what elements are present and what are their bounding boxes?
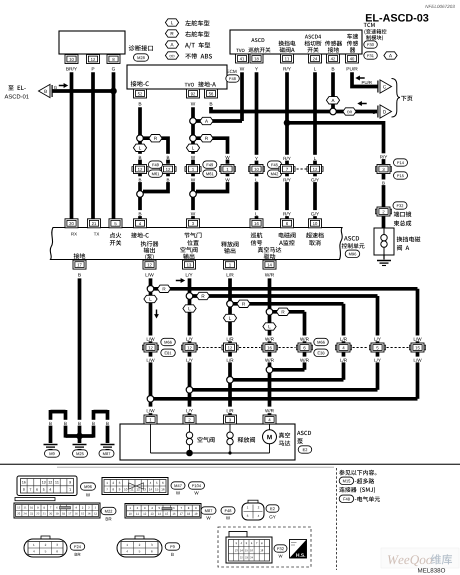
page link triangle C bbox=[378, 80, 392, 93]
split junction L/W bbox=[147, 286, 154, 293]
wire label L bbox=[314, 67, 316, 70]
wire label W/R below inline connector bbox=[265, 357, 275, 363]
junction of ground wires bbox=[330, 108, 337, 115]
wire label L/Y above inline connector bbox=[185, 336, 195, 342]
split junction bbox=[190, 135, 197, 142]
RHD inline connector 6 (M66/E38) bbox=[296, 343, 312, 352]
wire label R/Y bbox=[283, 67, 291, 71]
connector ref M61 bbox=[203, 170, 217, 177]
variant lens R bbox=[196, 292, 209, 299]
junction R/Y branch bbox=[284, 120, 291, 127]
wire R/Y from TCM pin 11 to ASCD unit pin 6 bbox=[285, 72, 289, 219]
merge junction bbox=[190, 191, 197, 198]
wire into shift solenoid A bbox=[382, 216, 386, 229]
body ground M25 bbox=[73, 445, 87, 450]
body ground M9 bbox=[44, 445, 58, 450]
connector ref F104 bbox=[189, 482, 205, 489]
wire stubs to pump pins bbox=[149, 413, 153, 416]
pin 56 bbox=[205, 89, 218, 98]
wire label R/Y bbox=[282, 155, 292, 161]
wire label B bbox=[63, 420, 67, 426]
watermark WeeQoo bbox=[381, 548, 459, 568]
connector ref M96 bbox=[345, 250, 360, 257]
wire label B bbox=[78, 273, 81, 276]
wire L/Y RHD branch bus bbox=[190, 294, 378, 298]
connector ref E81 bbox=[161, 349, 176, 356]
wire L/GY from TCM pin 24 to ASCD unit pin 10 bbox=[313, 72, 317, 219]
variant lens R bbox=[149, 135, 162, 142]
wire label L bbox=[254, 176, 258, 182]
connector ref M47 bbox=[171, 482, 185, 489]
connector ref M96 bbox=[81, 483, 96, 490]
wire label B bbox=[77, 420, 81, 426]
variant lens A on TCM sensor ground bbox=[326, 97, 339, 104]
ECM label bbox=[227, 70, 236, 73]
wire label L above pin 16 bbox=[254, 210, 258, 216]
connector ref F32 bbox=[274, 545, 287, 552]
data link connector box M28 bbox=[59, 31, 125, 54]
connector ref F31 bbox=[364, 52, 378, 59]
merge junction L/Y bbox=[186, 387, 193, 394]
wire label B bbox=[138, 176, 142, 182]
wire label B bbox=[332, 67, 335, 70]
merge junction L/R bbox=[227, 377, 234, 384]
variant lens L bbox=[263, 323, 276, 330]
connector ref F48 bbox=[226, 75, 240, 82]
pin 8 bbox=[107, 55, 120, 64]
ground branch wires bbox=[66, 434, 80, 438]
release valve coil 释放阀 bbox=[229, 424, 231, 432]
wire L/R RHD branch bus bbox=[230, 302, 344, 306]
body ground M87 bbox=[101, 445, 115, 450]
plate number MEL838O bbox=[418, 568, 445, 572]
wire label Y bbox=[254, 155, 258, 161]
wire L/R main (LHD path) bbox=[228, 278, 232, 406]
wire label B bbox=[48, 420, 52, 426]
wire label L/R above RHD inline connector bbox=[339, 336, 349, 342]
TCM pin 42 bbox=[327, 54, 340, 63]
wire label W/R below RHD inline connector bbox=[300, 357, 310, 363]
split junction L/R bbox=[227, 301, 234, 308]
wire L/W main (LHD path) bbox=[149, 278, 153, 406]
ASCD pin 12 bbox=[143, 260, 156, 269]
solenoid coil bbox=[383, 228, 385, 235]
pin 92 bbox=[187, 89, 200, 98]
ASCD pin 17 bbox=[73, 260, 86, 269]
connector face F9 oval 6-pin bbox=[135, 536, 144, 540]
variant lens R bbox=[276, 308, 289, 315]
wire label BR/Y bbox=[66, 67, 77, 71]
inline connector 12 bbox=[307, 165, 323, 174]
wire label L/W above RHD inline connector bbox=[413, 336, 423, 342]
connector ref F45 bbox=[268, 161, 282, 168]
wire label G/Y bbox=[310, 176, 320, 182]
merge junction W/R bbox=[266, 367, 273, 374]
wire label W branch bbox=[225, 154, 229, 160]
wire Y/L from TCM pin 18 to ASCD unit pin 16 bbox=[255, 72, 259, 219]
inline connector 1 (F49) bbox=[185, 165, 201, 174]
connector face F32 (SMJ) bbox=[229, 532, 247, 538]
inline connector 7 bbox=[279, 165, 295, 174]
split junction W/R bbox=[266, 309, 273, 316]
wire label B bbox=[91, 420, 95, 426]
wire L/Y main (LHD path) bbox=[188, 278, 192, 406]
junction of ground wires bbox=[76, 433, 83, 440]
shift solenoid A box bbox=[374, 228, 394, 255]
ASCD pin 4 bbox=[134, 219, 147, 228]
connector ref F48 bbox=[221, 507, 235, 514]
wire label R/Y bbox=[282, 176, 292, 182]
wire B from TCM pin 42 bbox=[331, 72, 335, 111]
wire label B below connector 3 bbox=[381, 180, 385, 186]
ASCD pump label bbox=[297, 431, 311, 435]
wire label L/W above inline connector bbox=[146, 336, 156, 342]
inline connector 12 (M66/E81) bbox=[181, 343, 197, 352]
junction with TVO wire bbox=[190, 118, 197, 125]
TCM pin 40 bbox=[346, 54, 359, 63]
pump pin 4 bbox=[263, 415, 276, 424]
signal arrow left bbox=[357, 101, 366, 106]
wire label L/R above pump pin 3 bbox=[225, 407, 235, 413]
wire label G bbox=[112, 67, 115, 70]
wire W from pin 92 to ASCD unit pin 3 bbox=[191, 107, 195, 219]
page link triangle D bbox=[378, 105, 392, 118]
wire B from ASCD pin 17 to body grounds bbox=[78, 278, 82, 436]
wire R/Y branch to shift solenoid A bbox=[287, 123, 384, 164]
wire B to page link D bbox=[336, 110, 377, 114]
signal arrow left bbox=[355, 76, 364, 81]
legend left-hand-drive models bbox=[165, 19, 178, 26]
wire label L/Y below inline connector bbox=[185, 357, 195, 363]
RHD inline connector 4 (M66/E38) bbox=[335, 343, 351, 352]
connector face M96 (ASCD unit 16-pin) bbox=[17, 476, 77, 496]
inline connector 1 (M61) bbox=[219, 165, 235, 174]
air valve coil 空气阀 bbox=[189, 424, 191, 432]
wire label W branch bbox=[225, 176, 229, 182]
ASCD pin 16 bbox=[250, 219, 263, 228]
doc number NFEL0067203 bbox=[425, 5, 454, 8]
wire L/W RHD branch bus bbox=[151, 287, 418, 291]
harness dashed link 7-12 bbox=[297, 168, 307, 170]
notes column dashed divider bbox=[336, 468, 338, 570]
wire W/R RHD branch bus bbox=[270, 310, 305, 314]
wire label L/Y above RHD inline connector bbox=[373, 336, 383, 342]
connector ref M61 bbox=[149, 170, 163, 177]
ASCD pin 5 bbox=[109, 219, 122, 228]
connector ref M42 bbox=[268, 170, 282, 177]
connector ref M87 bbox=[201, 507, 216, 514]
variant lens L bbox=[183, 305, 196, 312]
TCM pin 24 bbox=[309, 54, 322, 63]
wire BR/Y to ASCD unit pin 20 bbox=[70, 72, 74, 219]
connector face M47 (TCM 16-pin) bbox=[102, 478, 168, 495]
inline connector 12 (M66/E81) bbox=[142, 343, 158, 352]
wire label W bbox=[191, 176, 195, 182]
wire label L/W below RHD inline connector bbox=[413, 357, 423, 363]
wire RHD branch B bbox=[143, 138, 168, 164]
connector ref E38 bbox=[314, 349, 329, 356]
TCM transmission control module box bbox=[230, 30, 362, 54]
pump pin 2 bbox=[183, 415, 196, 424]
variant lens L bbox=[144, 295, 157, 302]
ASCD pin 6 bbox=[281, 219, 294, 228]
ASCD pin 21 bbox=[88, 219, 101, 228]
wire label L/R below RHD inline connector bbox=[339, 357, 349, 363]
notes text 参见以下内容 bbox=[339, 470, 376, 476]
inline connector 12 (M61) bbox=[160, 165, 176, 174]
connector ref E2 bbox=[266, 505, 279, 512]
ground block box 接地-C / TVO 接地-A (ECM F48) bbox=[127, 65, 227, 89]
connector ref F30 bbox=[364, 41, 378, 48]
variant lens R bbox=[157, 285, 170, 292]
wire label B bbox=[138, 154, 142, 160]
variant lens OR bbox=[343, 108, 356, 115]
wire B from pin 56 to junction bbox=[211, 107, 333, 112]
variant lens R bbox=[200, 135, 213, 142]
connector ref F32 bbox=[393, 202, 407, 209]
variant lens L bbox=[133, 144, 146, 151]
wire label W bbox=[240, 67, 244, 70]
variant lens A bbox=[384, 52, 397, 59]
wire label W above pin 3 bbox=[191, 210, 196, 216]
wire label W/R bbox=[265, 273, 274, 277]
split junction L/Y bbox=[186, 293, 193, 300]
legend A/T models bbox=[165, 41, 178, 48]
connector ref F15 bbox=[394, 172, 408, 179]
wire B from pin 52 to ASCD unit pin 4 bbox=[138, 107, 142, 219]
variant lens L bbox=[223, 314, 236, 321]
connector ref E2 bbox=[298, 446, 312, 453]
wire G to ASCD unit pin 5 bbox=[112, 72, 116, 219]
wire label L/R bbox=[227, 273, 234, 277]
variant lens L bbox=[186, 144, 199, 151]
connector ref M28 bbox=[134, 54, 149, 61]
inline connector 16 (M66/E81) bbox=[261, 343, 277, 352]
wire label P bbox=[92, 67, 95, 70]
SMJ dashed view box bbox=[218, 527, 311, 567]
wire label W/R above RHD inline connector bbox=[300, 336, 310, 342]
wire label L/W above pump pin 1 bbox=[146, 407, 156, 413]
wire label W/R above inline connector bbox=[265, 336, 275, 342]
title EL-ASCD-03 bbox=[366, 14, 428, 22]
section separator line bbox=[0, 463, 460, 465]
wire label Y bbox=[255, 67, 258, 70]
split junction bbox=[137, 135, 144, 142]
connector ref F14 bbox=[394, 159, 408, 166]
wire W/R main (LHD path) bbox=[268, 278, 272, 406]
pin 52 bbox=[134, 89, 147, 98]
wire label B bbox=[210, 102, 213, 105]
wire label G/Y above pin 10 bbox=[310, 210, 320, 216]
connector face M87 (20-pin) bbox=[125, 504, 201, 519]
wire label R/Y above pin 6 bbox=[282, 210, 292, 216]
TCM pin 11 bbox=[281, 54, 294, 63]
page link triangle B to EL-ASCD-01 bbox=[39, 84, 53, 97]
wire P to ASCD unit pin 21 bbox=[91, 72, 95, 219]
ASCD pin 13 bbox=[183, 260, 196, 269]
wire label B bbox=[139, 102, 142, 105]
TCM pin 18 bbox=[250, 54, 263, 63]
TCM label and refs bbox=[364, 23, 375, 27]
pump pin 3 bbox=[224, 415, 237, 424]
wire RHD branch W bbox=[196, 138, 228, 164]
flow arrow on L/W branch bbox=[176, 278, 185, 283]
merge junction L/W bbox=[147, 396, 154, 403]
connector ref M15 bbox=[339, 477, 354, 484]
pin 10 bbox=[65, 55, 78, 64]
wire PU/R from TCM pin 40 to page link C bbox=[352, 72, 378, 86]
connector face E2 round (pump) bbox=[248, 500, 258, 503]
RHD inline connector 15 (M66/E38) bbox=[409, 343, 425, 352]
wire to SMJ connector 2 bbox=[382, 174, 386, 208]
wire label B bbox=[373, 111, 375, 114]
connector ref F49 bbox=[149, 161, 163, 168]
merge junction bbox=[137, 191, 144, 198]
wire label L/R above inline connector bbox=[225, 336, 235, 342]
next page bracket 下页 bbox=[392, 79, 401, 118]
vacuum motor M bbox=[269, 424, 271, 429]
connector ref M66 bbox=[161, 338, 176, 345]
ground at shift solenoid bbox=[383, 255, 385, 260]
H.S. harness side view mark bbox=[290, 540, 307, 559]
wire label L/Y below RHD inline connector bbox=[373, 357, 383, 363]
RHD inline connector 5 (M66/E38) bbox=[369, 343, 385, 352]
wire label W bbox=[191, 154, 195, 160]
wire label L/W below inline connector bbox=[146, 357, 156, 363]
inline connector 3 (F14/F15) bbox=[375, 165, 391, 174]
wire label PU/R on link bbox=[362, 81, 372, 84]
pin 12 bbox=[87, 55, 100, 64]
wire label B branch bbox=[166, 176, 170, 182]
connector ref F48 bbox=[339, 495, 354, 502]
TCM pin 41 bbox=[236, 54, 249, 63]
wire label L/W bbox=[146, 273, 154, 277]
connector ref M66 bbox=[314, 338, 329, 345]
wire label B above pin 4 bbox=[138, 210, 143, 216]
wire label B branch bbox=[166, 154, 170, 160]
inline connector 10 (F45/M42) bbox=[248, 165, 264, 174]
ASCD pin 3 bbox=[187, 219, 200, 228]
flow arrow on L/W main bbox=[154, 310, 159, 319]
junction on wire G bbox=[110, 88, 117, 95]
signal direction arrow bbox=[59, 83, 68, 88]
inline connector 2 (F32) bbox=[375, 207, 391, 216]
connector face M22 (25-pin) bbox=[15, 498, 55, 501]
connector ref F49 bbox=[203, 161, 217, 168]
inline connector 12 (M66/E81) bbox=[222, 343, 238, 352]
ASCD pin 10 bbox=[309, 219, 322, 228]
wire label W/R above pump pin 4 bbox=[265, 407, 275, 413]
wire W from TCM pin 41 (A/T) bbox=[240, 72, 244, 121]
connector ref M22 bbox=[101, 507, 116, 514]
legend right-hand-drive models bbox=[165, 30, 178, 37]
ASCD pump box E2 bbox=[120, 424, 295, 460]
wire label L/Y above pump pin 2 bbox=[185, 407, 195, 413]
wire label R/Y above connector 3 bbox=[379, 153, 389, 159]
legend without ABS bbox=[165, 52, 178, 59]
ASCD pin 20 bbox=[65, 219, 78, 228]
wire label L/Y bbox=[186, 273, 193, 277]
wire label L bbox=[313, 155, 317, 161]
ASCD control unit box M96 bbox=[50, 228, 342, 260]
wire label W bbox=[191, 102, 195, 105]
wire label G at branch bbox=[54, 86, 57, 89]
wire G branch to EL-ASCD-01 bbox=[52, 89, 114, 93]
harness dashed links between connectors bbox=[199, 347, 222, 349]
wire label L/R below inline connector bbox=[225, 357, 235, 363]
wire label PU/R bbox=[347, 67, 358, 71]
pump internal common wire bbox=[150, 424, 152, 453]
connector face F24 oval 6-pin bbox=[41, 536, 50, 540]
pump pin 1 bbox=[144, 415, 157, 424]
variant lens A bbox=[200, 117, 213, 124]
ASCD pin 1 bbox=[224, 260, 237, 269]
wire label B bbox=[105, 420, 109, 426]
ASCD pin 14 bbox=[263, 260, 276, 269]
inline connector 12 (F49) bbox=[132, 165, 148, 174]
variant lens R bbox=[237, 300, 250, 307]
